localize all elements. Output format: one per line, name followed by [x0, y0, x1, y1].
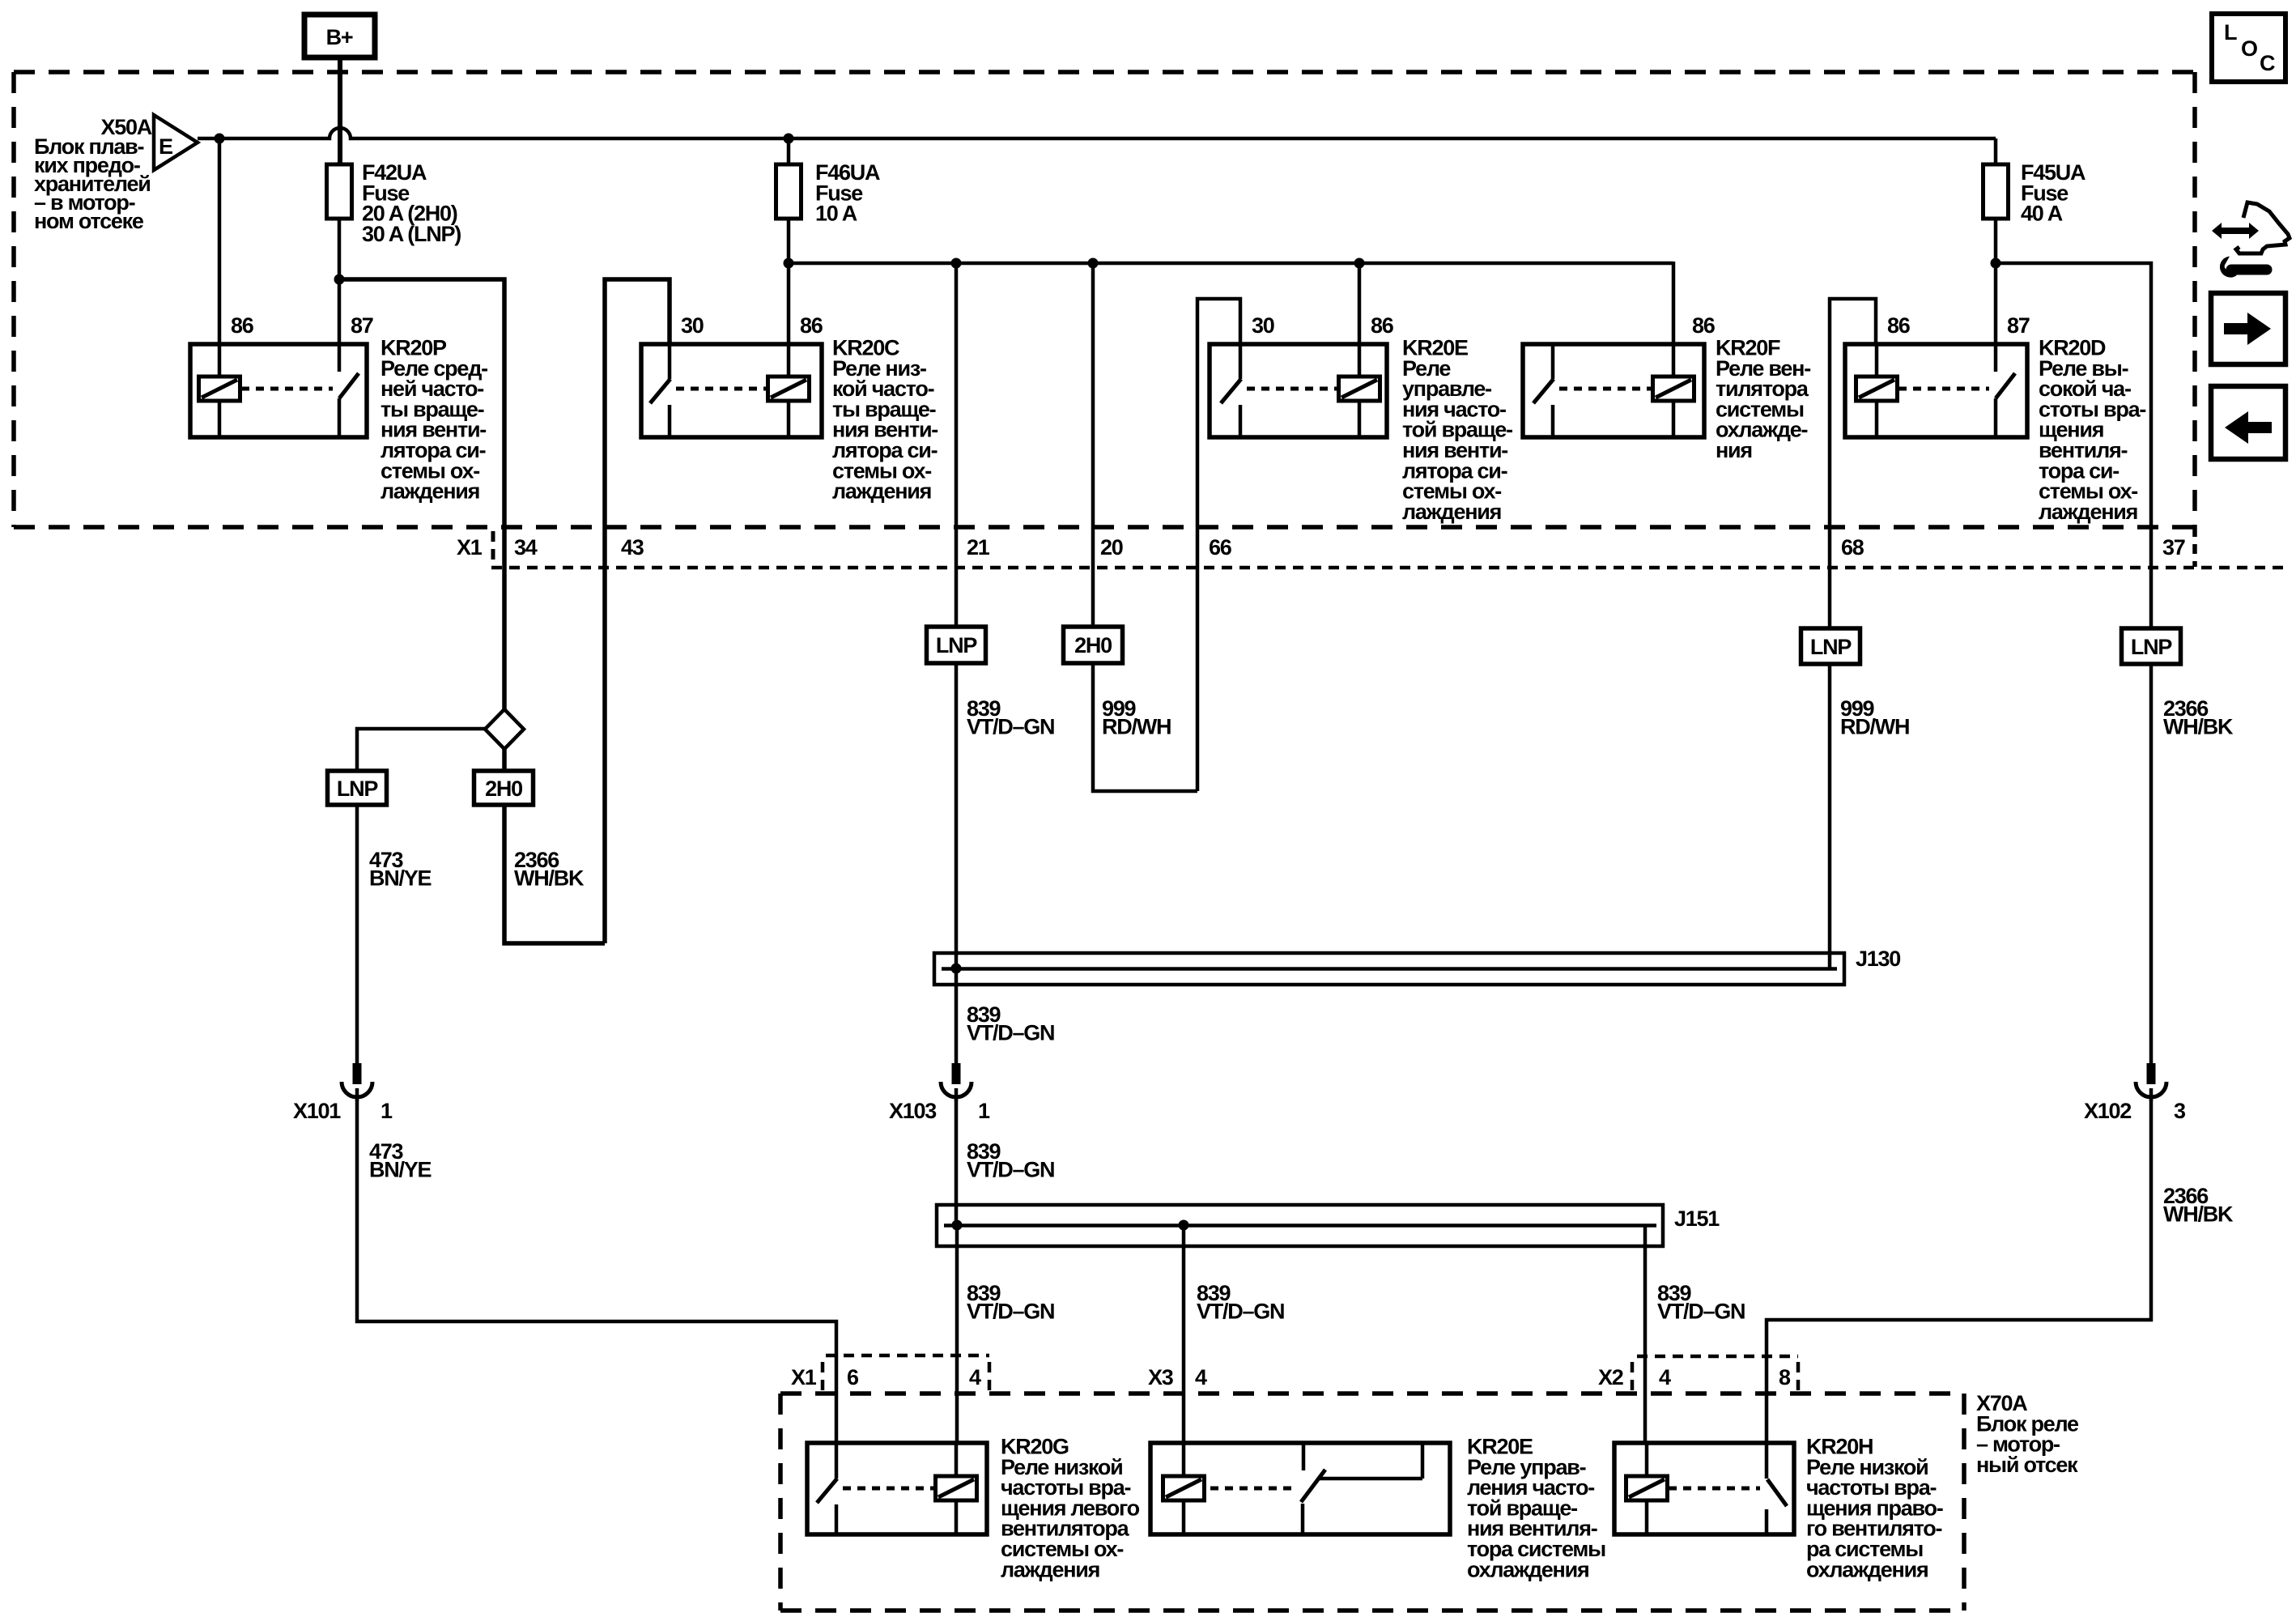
- connector X102 pin 3: [2084, 1063, 2186, 1123]
- option tag 2H0 (X1-34): [474, 771, 534, 805]
- fuse F42UA: [327, 160, 461, 279]
- svg-text:X1: X1: [457, 535, 483, 560]
- relay KR20H: [1614, 1435, 1943, 1582]
- svg-text:LNP: LNP: [1810, 635, 1852, 659]
- relay KR20G: [807, 1435, 1140, 1582]
- connector X101 pin 1: [293, 1063, 393, 1123]
- svg-text:2H0: 2H0: [485, 777, 522, 801]
- svg-text:VT/D–GN: VT/D–GN: [967, 1300, 1054, 1324]
- splice J130: [934, 947, 1900, 985]
- svg-text:6: 6: [847, 1365, 859, 1389]
- relay KR20F: [1523, 313, 1810, 462]
- wire X102 to KR20H pin 8: [1767, 1100, 2151, 1443]
- fuse F46UA: [776, 138, 881, 263]
- svg-text:20: 20: [1100, 535, 1123, 560]
- node junction at F46UA tap: [784, 134, 794, 144]
- node junction below F46UA: [784, 258, 794, 269]
- icon double arrow: [2212, 223, 2259, 239]
- wire J151 to bottom KR20E coil: [1182, 1225, 1186, 1443]
- svg-text:86: 86: [1887, 313, 1911, 338]
- relay KR20C: [641, 313, 938, 504]
- svg-text:WH/BK: WH/BK: [2163, 715, 2234, 739]
- wire F46UA to KR20C pin 86: [787, 263, 791, 344]
- svg-text:L: L: [2224, 20, 2237, 45]
- svg-text:X2: X2: [1598, 1365, 1623, 1389]
- wire LNP to X101: [355, 805, 359, 1065]
- svg-text:J130: J130: [1856, 947, 1900, 971]
- svg-text:86: 86: [1371, 313, 1394, 338]
- wire 2366 WH/BK to X102: [2149, 664, 2154, 1065]
- relay block X70A dashed border box: [780, 1394, 1964, 1611]
- svg-text:X102: X102: [2084, 1099, 2131, 1123]
- node bus tap KR20E pin 86: [1354, 258, 1365, 269]
- wire bus to X1 pin 20 2H0 box: [1091, 263, 1095, 628]
- svg-text:87: 87: [351, 313, 373, 338]
- svg-text:BN/YE: BN/YE: [369, 866, 432, 891]
- wire X101 to KR20G pin 6: [357, 1100, 836, 1443]
- icon arrow next box: [2211, 293, 2285, 364]
- wire bus corner down to KR20F pin 86: [1672, 262, 1676, 344]
- svg-text:86: 86: [1692, 313, 1716, 338]
- svg-text:VT/D–GN: VT/D–GN: [967, 715, 1054, 739]
- wire bus from F46UA to KR20F: [789, 262, 1673, 266]
- svg-text:RD/WH: RD/WH: [1102, 715, 1171, 739]
- wire bus to KR20E pin 86: [1358, 263, 1362, 344]
- svg-text:VT/D–GN: VT/D–GN: [967, 1158, 1054, 1182]
- option tag LNP (X1-21): [927, 627, 986, 663]
- svg-text:лаждения: лаждения: [381, 479, 479, 504]
- fuse F45UA: [1983, 138, 2086, 263]
- svg-text:X103: X103: [889, 1099, 937, 1123]
- relay KR20E (X70A): [1150, 1435, 1605, 1582]
- fuse block X50A dashed border box: [14, 72, 2195, 567]
- option tag LNP (X1-34): [328, 771, 387, 805]
- wire 999 RD/WH to splice J130: [1828, 664, 1832, 970]
- icon LOC box: [2212, 14, 2285, 82]
- svg-text:ном отсеке: ном отсеке: [34, 209, 144, 233]
- wire KR20E pin 30 to X1 pin 66: [1197, 299, 1240, 791]
- power symbol B+: [304, 15, 375, 57]
- wire triangle to KR20P pin 86: [218, 138, 222, 344]
- connector X2 fine dashed box: [1632, 1356, 1798, 1392]
- wire KR20C pin 30 to X1 pin 43: [605, 279, 670, 943]
- svg-text:2H0: 2H0: [1074, 633, 1112, 657]
- wire branch to X1 pin 34: [339, 279, 504, 711]
- connector X1 separator: [491, 531, 495, 566]
- svg-text:WH/BK: WH/BK: [2163, 1202, 2234, 1227]
- svg-text:4: 4: [1195, 1365, 1207, 1389]
- splice J151: [937, 1205, 1720, 1246]
- node junction below F42UA: [334, 274, 345, 285]
- wire main feed horizontal with hop over B+ wire: [198, 128, 1996, 138]
- svg-text:43: 43: [621, 535, 644, 560]
- svg-text:X1: X1: [791, 1365, 817, 1389]
- node junction below F45UA: [1991, 258, 2001, 269]
- wire B+ to fuse F42UA: [338, 57, 342, 168]
- wire 2H0 down and over to X1 pin 43: [504, 805, 605, 943]
- node junction at triangle branch: [215, 134, 225, 144]
- svg-text:лаждения: лаждения: [1402, 500, 1501, 524]
- fuse block feed triangle E (X50A): [154, 115, 198, 170]
- svg-text:лаждения: лаждения: [832, 479, 931, 504]
- svg-text:1: 1: [978, 1099, 990, 1123]
- svg-text:8: 8: [1779, 1365, 1791, 1389]
- svg-text:X3: X3: [1148, 1365, 1174, 1389]
- svg-text:86: 86: [231, 313, 254, 338]
- svg-text:LNP: LNP: [936, 633, 977, 657]
- relay KR20D: [1845, 313, 2145, 524]
- svg-text:LNP: LNP: [2131, 635, 2172, 659]
- svg-text:ния: ния: [1716, 438, 1752, 462]
- svg-text:4: 4: [969, 1365, 981, 1389]
- icon car outline: [2236, 202, 2290, 253]
- svg-text:лаждения: лаждения: [1001, 1557, 1099, 1581]
- node bus tap X1-21: [951, 258, 962, 269]
- node junction J151 at X3-4: [1179, 1220, 1189, 1231]
- connector X1 (X70A) fine dashed box: [823, 1355, 989, 1392]
- svg-text:E: E: [159, 134, 172, 159]
- svg-text:34: 34: [514, 535, 538, 560]
- svg-text:1: 1: [381, 1099, 393, 1123]
- svg-text:лаждения: лаждения: [2039, 500, 2137, 524]
- svg-text:BN/YE: BN/YE: [369, 1158, 432, 1182]
- svg-text:68: 68: [1841, 535, 1864, 560]
- svg-text:37: 37: [2162, 535, 2185, 560]
- wire branch to X1 pin 37: [1996, 263, 2151, 630]
- wire diamond to LNP option: [357, 729, 485, 771]
- wire bus to X1 pin 21 LNP box: [955, 263, 959, 628]
- icon wrench: [2221, 257, 2267, 277]
- svg-text:10 A: 10 A: [815, 202, 857, 226]
- option tag LNP (X1-37): [2122, 628, 2181, 664]
- svg-text:21: 21: [967, 535, 990, 560]
- wire diamond to 2H0 option: [502, 749, 507, 771]
- wire 999 RD/WH to X1 pin 66: [1093, 663, 1197, 791]
- wire J151 to KR20H pin 4: [1643, 1225, 1648, 1443]
- option tag LNP (X1-68): [1801, 628, 1860, 664]
- node bus tap X1-20: [1088, 258, 1099, 269]
- svg-text:охлаждения: охлаждения: [1467, 1557, 1588, 1581]
- svg-text:4: 4: [1659, 1365, 1671, 1389]
- wire 839 through J130: [955, 663, 959, 1065]
- svg-text:охлаждения: охлаждения: [1806, 1557, 1928, 1581]
- svg-text:LNP: LNP: [337, 777, 378, 801]
- svg-text:86: 86: [800, 313, 823, 338]
- svg-text:VT/D–GN: VT/D–GN: [1657, 1300, 1745, 1324]
- svg-text:X101: X101: [293, 1099, 341, 1123]
- svg-text:3: 3: [2174, 1099, 2186, 1123]
- svg-text:VT/D–GN: VT/D–GN: [1197, 1300, 1284, 1324]
- icon arrow back box: [2211, 386, 2285, 459]
- node junction J151 at 839 left: [952, 1220, 963, 1231]
- svg-text:66: 66: [1209, 535, 1232, 560]
- wire KR20D pin 86 to X1 pin 68: [1830, 299, 1876, 630]
- svg-text:O: O: [2241, 36, 2257, 61]
- svg-text:C: C: [2260, 51, 2275, 75]
- svg-text:30: 30: [681, 313, 704, 338]
- wire J151 to KR20G pin 4: [955, 1225, 959, 1443]
- svg-text:30 A (LNP): 30 A (LNP): [362, 222, 461, 246]
- relay KR20E (fuse block): [1210, 313, 1512, 524]
- svg-text:ный отсек: ный отсек: [1976, 1453, 2078, 1477]
- connector X103 pin 1: [889, 1063, 990, 1123]
- svg-text:J151: J151: [1674, 1206, 1720, 1231]
- wire F45UA to KR20D pin 87: [1994, 263, 1998, 344]
- wire X103 to splice J151: [955, 1100, 959, 1227]
- relay KR20P: [190, 313, 487, 504]
- svg-text:RD/WH: RD/WH: [1840, 715, 1909, 739]
- svg-text:87: 87: [2007, 313, 2030, 338]
- connector X1 row fine dashed line: [491, 566, 2285, 570]
- svg-text:30: 30: [1252, 313, 1274, 338]
- svg-text:40 A: 40 A: [2021, 202, 2063, 226]
- svg-text:B+: B+: [326, 25, 353, 49]
- wire F42UA output to KR20P pin 87: [338, 279, 342, 344]
- node option split diamond: [485, 709, 524, 749]
- svg-text:WH/BK: WH/BK: [514, 866, 585, 891]
- node junction J130 at 839: [951, 964, 962, 974]
- svg-text:VT/D–GN: VT/D–GN: [967, 1021, 1054, 1045]
- option tag 2H0 (X1-20): [1064, 627, 1123, 663]
